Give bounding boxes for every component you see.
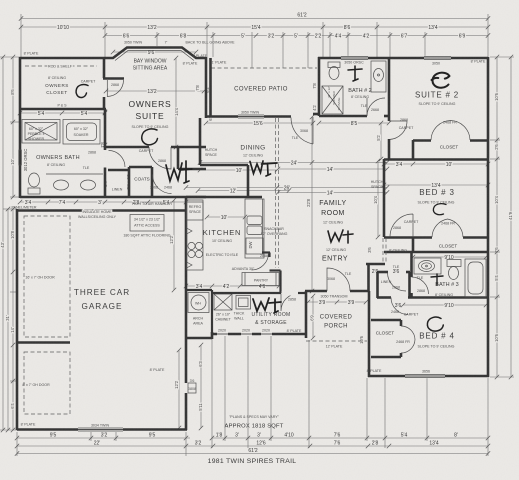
top dim line 61'2: [21, 18, 488, 20]
interior dim: closet 5'4 5'4: [20, 112, 105, 114]
interior dim: 26': [186, 187, 387, 189]
bottom dim row 1 left 9'5 3'2 9'5: [17, 437, 190, 439]
handwritten WT hall: [166, 161, 192, 183]
porch west / utility east wall: [305, 291, 308, 338]
bath3 south wall / bed4 north: [377, 296, 391, 299]
bed4 closet bifold arcs: [401, 326, 415, 353]
bed3 door leaf+arc: [390, 214, 413, 237]
owners closet door leaf+arc: [107, 80, 124, 97]
owners suite east wall: [205, 57, 208, 118]
garage north wall: [17, 209, 186, 212]
garage south wall: [17, 428, 187, 431]
left dim inner segments: [12, 57, 14, 197]
bath3 west wall: [410, 252, 413, 277]
interior vertical dim 12'2 kitchen: [173, 200, 175, 290]
exterior wall top-left with bay window: [20, 48, 206, 59]
interior dim: suite2 8'5: [319, 122, 389, 124]
utility south wall: [212, 333, 306, 336]
right dim inner line: [496, 57, 498, 377]
utility cabinet: [214, 294, 232, 310]
owners bath door arc (swings into hall): [109, 151, 126, 168]
owners bath pocket door: [19, 150, 22, 165]
interior dim: 14' lower: [278, 192, 387, 194]
linen west wall: [376, 272, 379, 298]
porch south dashed: [306, 340, 367, 342]
exterior wall top-right: [318, 57, 488, 60]
owners suite south wall: [105, 146, 149, 149]
hutch nook walls: [177, 147, 180, 169]
handwritten WT utility: [253, 298, 281, 313]
handwritten C suite2 (bold): [432, 73, 450, 88]
interior dim: kitchen bottom 3'4 4'2 4'6: [186, 285, 279, 287]
bath3 tub: [465, 259, 486, 297]
interior dim: 10' dining: [200, 169, 277, 171]
utility west wall: [211, 290, 213, 334]
left dim line 43': [2, 57, 4, 430]
cooktop burners: [188, 242, 195, 249]
bed3 closet west wall: [412, 237, 415, 252]
bottom dim row 1 right: [212, 437, 488, 439]
dining nook south wall: [200, 164, 248, 167]
patio door stub wall: [313, 113, 319, 116]
hall door wall stubs: [377, 271, 388, 274]
interior dim: bed3 13'4: [384, 184, 488, 186]
window 3050 suite2 top: [424, 56, 451, 60]
handwritten T bath2: [348, 66, 362, 81]
garage door 16x7 dashed track: [24, 216, 70, 337]
bath3 toilet: [447, 260, 461, 267]
kitchen sink double bowl: [247, 216, 262, 225]
bath2 shower: [322, 86, 343, 114]
window 3050 bath2 top: [341, 56, 368, 60]
suite2 closet bifold arcs: [431, 121, 470, 141]
entry east wall: [367, 264, 370, 292]
kitchen SE jog wall: [262, 251, 270, 253]
garage east wall: [185, 197, 188, 430]
bath3 door arc: [412, 277, 429, 294]
owners bath toilet: [29, 173, 40, 187]
hall north wall: [366, 263, 385, 266]
interior dim: dining 15'6: [206, 122, 313, 124]
interior vertical dim 10'4 bed3: [377, 161, 379, 237]
left tick horizontals: [0, 56, 20, 58]
hall ceiling break dashed: [382, 238, 384, 262]
interior vertical dims left of suite 7'8: [104, 112, 106, 145]
interior dim: 9'10 above bath3: [413, 256, 486, 258]
front door opening: [327, 289, 350, 294]
bath2 toilet: [329, 67, 339, 80]
suite2 closet box: [412, 140, 415, 159]
bath2 vanity: [371, 61, 386, 92]
utility door 2858 leaf+arc: [281, 294, 299, 312]
hall-bed4 door arc: [388, 273, 407, 292]
bed3 closet bifold arcs: [432, 219, 463, 237]
family east wall: [383, 159, 386, 237]
right tick horizontals: [490, 56, 514, 58]
pantry corridor walls: [268, 253, 270, 258]
top dim row 2: [21, 26, 488, 28]
interior dim: 12' kitchen: [198, 190, 289, 192]
handwritten C owners suite: [142, 129, 158, 145]
handwritten C bed3: [433, 204, 446, 215]
dining/family dashed column line: [275, 118, 277, 268]
covered patio roof dashed: [211, 67, 317, 69]
hall-kitchen door arc: [153, 175, 172, 194]
kitchen snackbar east line: [262, 199, 264, 253]
rod and shelf dashed: [25, 65, 97, 67]
interior dim: 14' upper: [278, 168, 387, 170]
wall stub between garage doors: [18, 341, 70, 344]
suite2 entry door leaf+arc: [389, 121, 407, 140]
owners bath soaker tub: [63, 120, 100, 145]
interior vertical dim 22'8: [311, 117, 313, 291]
owners bath east wall: [104, 109, 107, 150]
porch east / bed4 west wall: [368, 291, 371, 377]
exterior wall west (closet/bath): [19, 57, 22, 198]
patio west wall: [209, 58, 212, 117]
interior dim: porch 3'9 3'9: [308, 301, 366, 303]
entry front wall: [305, 290, 369, 293]
bath/hall south wall: [20, 196, 206, 199]
bed4 closet box: [371, 319, 401, 322]
owners bath pebble shower: [22, 120, 60, 144]
utility windows 2020: [217, 332, 228, 336]
linen closet wall: [128, 167, 131, 197]
bed3 south wall / closet top: [384, 236, 413, 239]
owners closet / suite divider: [103, 57, 106, 78]
front door leaf+arc: [327, 268, 350, 291]
top dim row 3: [105, 35, 488, 37]
patio east wall / bath2 west wall: [318, 57, 321, 116]
kitchen SE door arc: [252, 253, 269, 270]
window 3656 bed4 south: [405, 374, 445, 378]
interior vertical dim 5'2: [380, 123, 382, 159]
arch area south wall: [186, 337, 212, 340]
owners bath vanity: [46, 173, 103, 175]
utility north wall: [212, 292, 281, 294]
bay window glazing inner line: [115, 51, 194, 61]
top extension verticals: [20, 14, 22, 57]
exterior wall east: [487, 57, 490, 377]
bath2 south wall: [319, 115, 367, 118]
interior dim: 24': [200, 162, 387, 164]
owners suite door leaf+arc: [149, 147, 171, 169]
dining nook east wall: [247, 165, 250, 198]
attic access box: [130, 215, 164, 232]
suite2 south wall: [384, 158, 488, 161]
interior dim: suite vertical 14'4: [175, 58, 177, 147]
refrigerator space: [187, 202, 204, 220]
linen east wall: [408, 272, 411, 298]
utility water heater: [188, 293, 209, 313]
bath3 vanity: [414, 258, 441, 274]
owners closet door jog wall: [103, 77, 124, 80]
bath2 door leaf+arc: [367, 98, 385, 116]
bath2 east / suite2 west wall: [388, 57, 391, 121]
pantry: [242, 273, 279, 286]
handwritten T bath3: [431, 274, 443, 285]
utility sink: [236, 296, 251, 310]
patio door leaf+arc: [291, 117, 313, 144]
bed3 closet south wall: [384, 251, 488, 254]
interior vertical dims porch: [312, 296, 314, 338]
interior dim: 10' kitchen: [207, 216, 245, 218]
bottom dim row 3 61'2: [17, 453, 488, 455]
garage side door: [184, 383, 189, 393]
handwritten WT family: [328, 230, 353, 243]
dishwasher: [246, 238, 263, 254]
right dim outer line 41'9: [510, 57, 512, 377]
bottom extension verticals: [16, 432, 18, 456]
garage west wall: [16, 209, 19, 430]
left dim line 31': [7, 209, 9, 430]
interior dim: 9'10 bed4: [403, 304, 486, 306]
exterior wall south of bed4: [368, 375, 489, 378]
interior dim: 3'4 10' below suite2: [384, 163, 488, 165]
handwritten C bed4: [427, 317, 443, 331]
kitchen island/snackbar counter: [245, 199, 264, 258]
interior dim row under bath y202: [20, 201, 186, 203]
garage south window 3034 twin: [78, 427, 123, 431]
kitchen north wall: [186, 196, 262, 199]
handwritten C owners closet: [76, 85, 88, 98]
interior dim: suite 13'2: [106, 90, 204, 92]
bed4 vestibule door arc: [391, 298, 408, 315]
coats closet wall: [151, 167, 154, 197]
interior vertical dims garage right 6'3 5'11 12'2: [200, 345, 202, 428]
kitchen south wall: [186, 289, 212, 291]
kitchen west counter: [187, 200, 204, 270]
dining window 3050 twin: [238, 114, 264, 118]
garage door 8x7 dashed track: [24, 352, 70, 414]
owners closet south wall: [20, 108, 106, 111]
bay window dim 9'6: [113, 51, 196, 53]
dining north wall: [206, 115, 291, 118]
dining west wall upper: [199, 118, 202, 165]
bottom dim row 2: [17, 445, 488, 447]
handwritten WT dining: [250, 161, 277, 176]
